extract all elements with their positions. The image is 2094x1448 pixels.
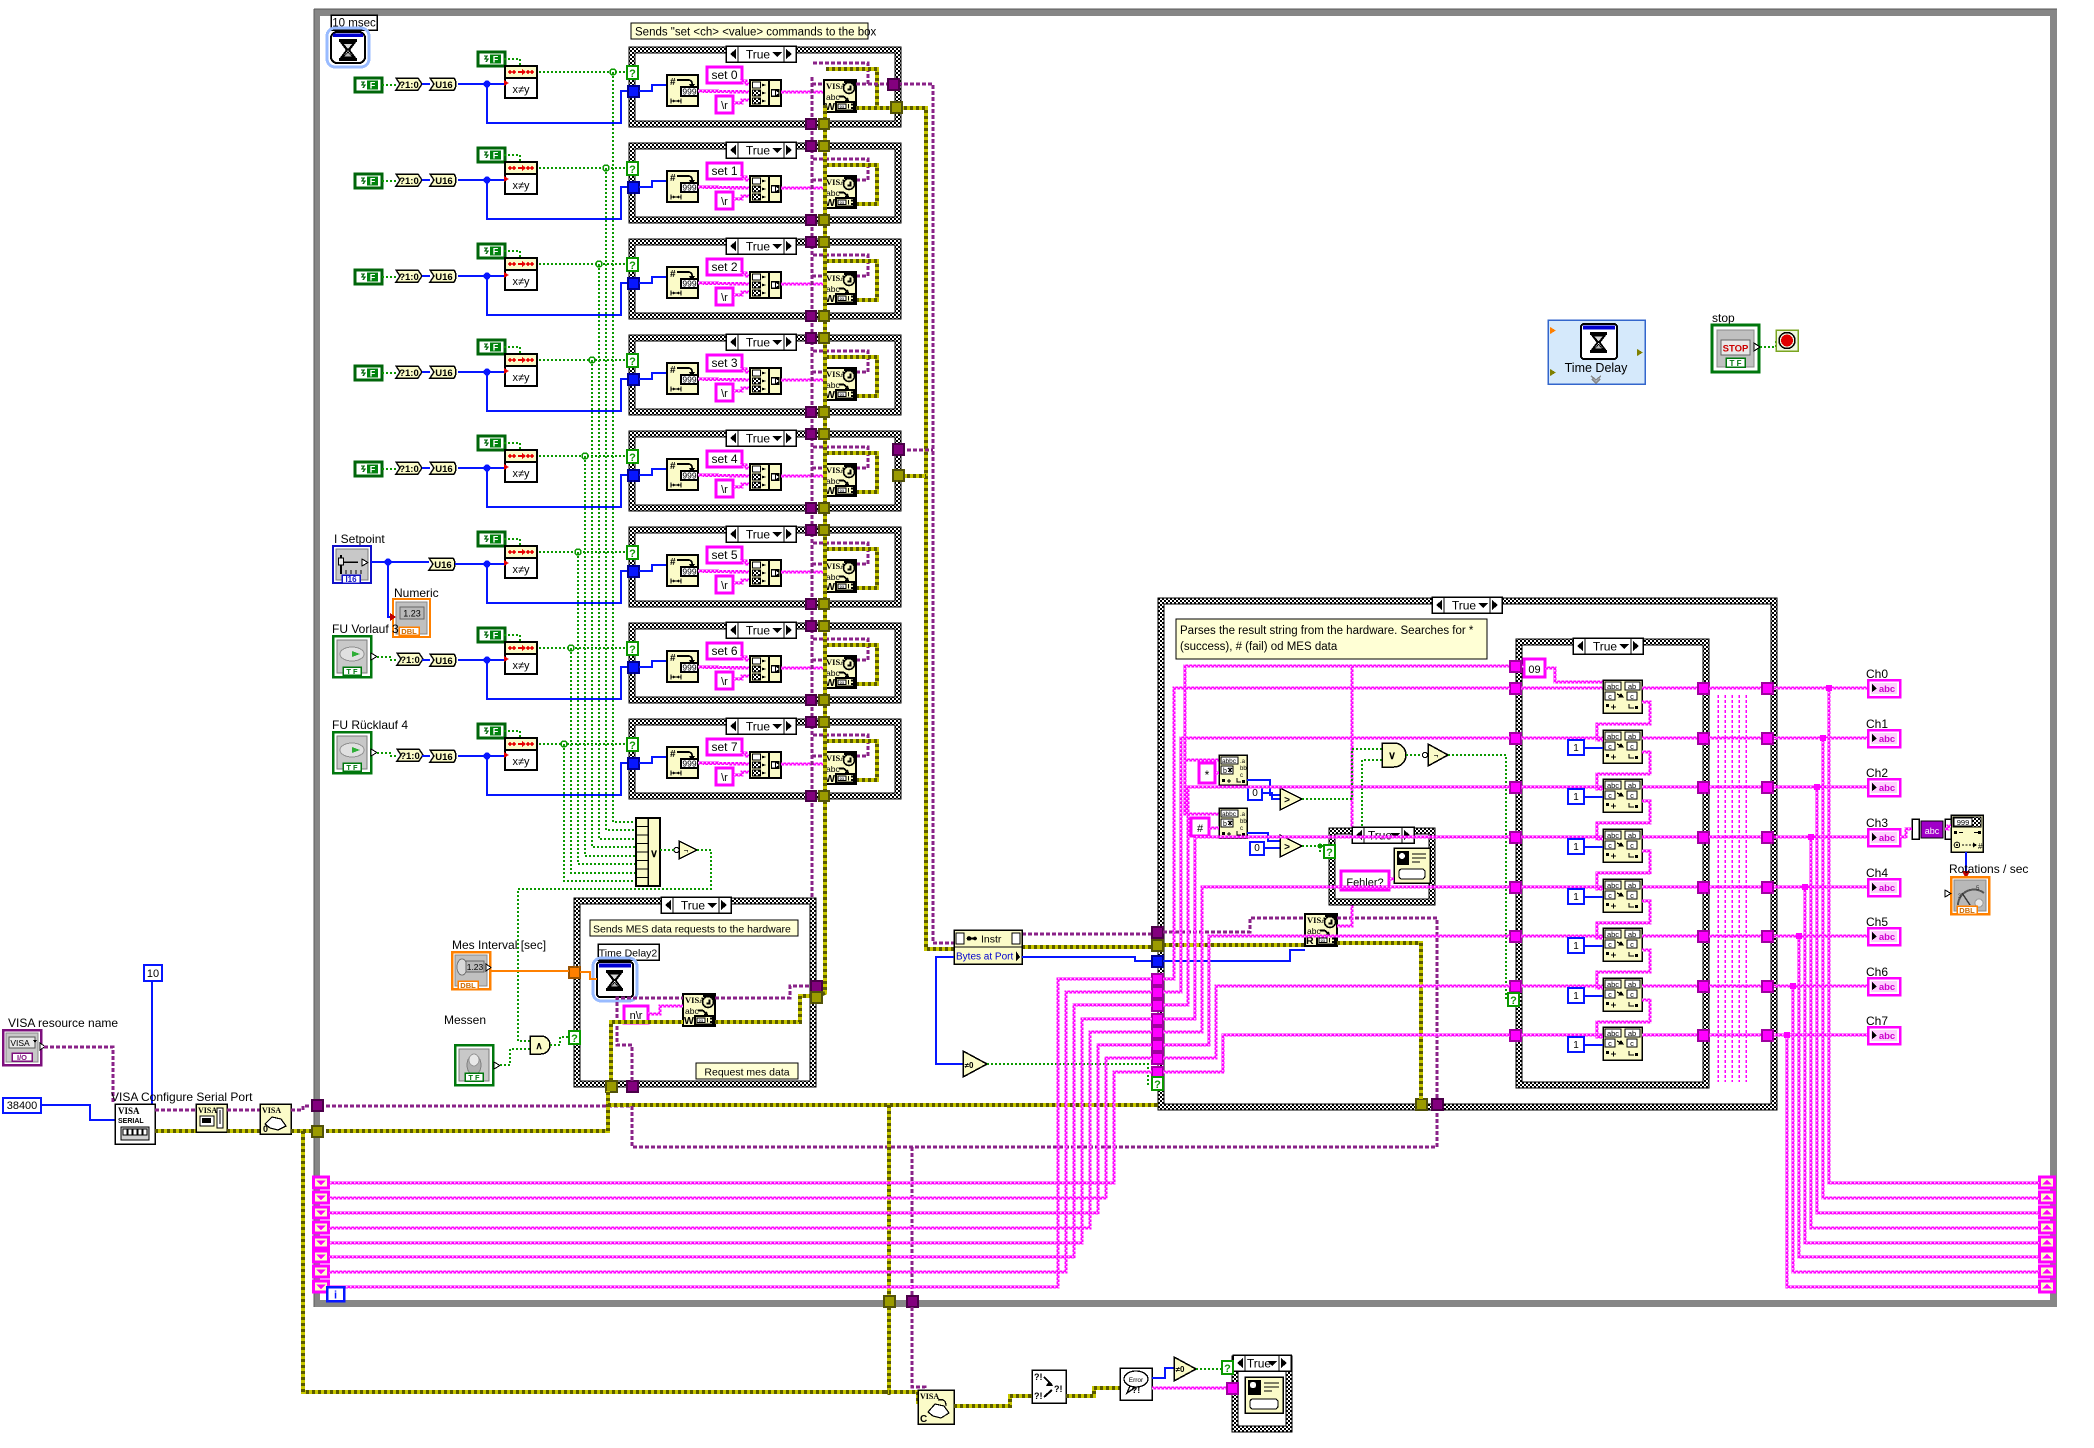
wire green selector row 1 [539,167,628,169]
svg-text:True: True [746,720,771,734]
select ?1:0 node row 0 [382,84,396,86]
svg-text:c: c [1630,692,1634,701]
while loop border [314,9,2057,16]
svg-text:?: ? [629,740,636,752]
not equal zero bottom [1174,1357,1196,1381]
svg-text:?: ? [629,452,636,464]
svg-text:\r: \r [721,388,728,400]
VISA write icon case 0 [824,80,856,112]
wire blue dsn to gauge [1965,852,1967,877]
olive tunnel bottom case 2 [819,311,829,321]
wire purple visa read out [1337,918,1437,1099]
svg-text:∧: ∧ [535,1041,542,1052]
select ?1:0 node row 6 [397,653,423,665]
number to string icon case 6 [667,651,698,682]
svg-text:STOP: STOP [1723,344,1749,355]
wire olive loop to MES [326,1091,608,1131]
wire olive below cases to big case [608,1103,1416,1107]
wire olive serial to property [155,1129,196,1133]
svg-text:999: 999 [1957,818,1970,827]
selector terminal case 0 [627,66,638,79]
svg-text:c: c [1608,990,1612,999]
magenta tunnel inner right 0 [1698,683,1709,694]
olive tunnel bottom case 4 [819,503,829,513]
wire hash to match [1209,827,1219,829]
svg-text:≠0: ≠0 [965,1061,974,1070]
visa elbow case 2 [812,275,824,278]
string constant set 4 [707,451,742,467]
wire blue into case 2 [487,276,629,315]
case structure error dialog [1232,1356,1292,1432]
wire magenta fan 2 [1163,787,1510,1005]
svg-text:abbc: abbc [1222,758,1237,765]
wire pink set label case 0 [740,81,750,84]
svg-text:x≠y: x≠y [512,276,530,288]
visa elbow case 1 [812,179,824,182]
shift register left 6 [314,1266,329,1277]
wire magenta SR line left 2 [329,1045,1152,1213]
wire pink backslash-r case 0 [733,100,750,103]
wire magenta inner input 5 [1521,935,1603,937]
olive tunnel bottom case 1 [819,215,829,225]
purple junction drop to loop bottom [911,1147,914,1297]
VISA wire hook case 1 [813,159,868,180]
wire magenta chain 5 [1597,901,1650,938]
VISA wire hook case 7 [813,735,868,756]
shift register right 0 [2040,1177,2055,1188]
svg-text:abc: abc [1879,734,1895,745]
scan from string icon 2 [1603,779,1642,812]
magenta tunnel big right 7 [1762,1030,1773,1041]
VISA wire hook case 5 [813,543,868,564]
wire magenta chain 2 [1597,752,1650,789]
svg-text:c: c [1630,891,1634,900]
selector terminal case 2 [627,258,638,271]
constant 1 inner 6 [1568,988,1584,1003]
purple tunnel bottom case 4 [806,503,816,513]
svg-text:Bytes at Port: Bytes at Port [956,952,1013,963]
wire magenta inner input 7 [1521,1034,1603,1036]
svg-text:ab: ab [1628,881,1636,890]
purple tunnel bottom case 2 [806,311,816,321]
svg-text:abc: abc [1925,826,1940,836]
loop condition terminal [1776,330,1798,351]
string constant hash [1191,818,1209,836]
magenta tunnel left 5 [1152,1040,1163,1051]
wire green selector row 3 [539,359,628,361]
visa elbow case 6 [812,659,824,662]
svg-text:\r: \r [721,772,728,784]
U16 conversion row 0 [422,83,430,85]
wire olive visa read out [1337,943,1421,1099]
svg-text:abc: abc [1607,831,1619,840]
wire magenta scan out 6 [1642,985,1704,987]
olive wire MES out right [715,996,811,1022]
wire green selector row 0 [539,71,628,73]
olive tunnel top case 3 [819,333,829,343]
svg-text:U16: U16 [434,560,451,571]
wire purple loop to MES [326,1105,632,1108]
magenta tunnel big right 1 [1762,733,1773,744]
svg-text:abc: abc [1607,930,1619,939]
svg-text:≠0: ≠0 [1176,1365,1185,1374]
olive wire inside MES [611,1022,683,1081]
VISA write icon case 7 [824,752,856,784]
wire pink backslash-r case 3 [733,388,750,391]
wire pink num out case 1 [698,187,750,188]
scan from string icon 1 [1603,730,1642,763]
wire green stop to condition [1760,341,1776,347]
svg-text:bb: bb [1240,819,1247,825]
wire blue inside case 7 [639,757,667,763]
svg-text:F: F [493,727,499,737]
wire magenta gap 3 [1709,836,1763,838]
wire star to match [1215,772,1219,774]
wire U16 to x-neq-y row 3 [458,371,505,373]
concatenate strings icon case 5 [750,560,769,586]
svg-text:T F: T F [1730,359,1742,368]
wire magenta inner input 1 [1521,737,1603,739]
shift register right 3 [2040,1222,2055,1233]
constant 1 inner 1 [1568,740,1584,755]
wire magenta SR line left 5 [329,1005,1152,1257]
shift register left 0 [314,1177,329,1188]
magenta tunnel inner left 6 [1510,981,1521,992]
visa elbow case 0 [812,83,824,86]
wire pink set label case 2 [740,273,750,276]
visa elbow case 7 [812,755,824,758]
string constant 09 [1524,659,1545,677]
wire magenta scan out 4 [1642,886,1704,888]
select ?1:0 node row 7 [397,749,423,761]
olive junction drop to loop bottom [887,1105,891,1297]
svg-text:#: # [670,557,676,568]
olive tunnel bottom case 5 [819,599,829,609]
svg-text:True: True [746,336,771,350]
svg-text:Sends MES data requests to the: Sends MES data requests to the hardware [593,924,791,936]
wire magenta gap 1 [1709,737,1763,739]
svg-text:\r: \r [721,100,728,112]
wire magenta fan 3 [1163,837,1510,1019]
svg-text:abc: abc [1607,732,1619,741]
concatenate strings icon case 3 [750,368,769,394]
svg-text:set 4: set 4 [711,452,737,466]
svg-text:VISA: VISA [10,1038,30,1048]
wire blue inside case 0 [639,85,667,91]
wire green bundle row 6 [571,648,636,873]
match pattern star icon [1219,755,1247,785]
svg-text:set 7: set 7 [711,740,737,754]
svg-text:?: ? [629,356,636,368]
svg-text:x≠y: x≠y [512,468,530,480]
svg-text:999: 999 [682,375,696,385]
select ?1:0 node row 1 [382,180,396,182]
string constant n-r [624,1006,648,1023]
magenta tunnel inner right 7 [1698,1030,1709,1041]
purple tunnel bottom case 6 [806,695,816,705]
VISA close icon [918,1390,954,1424]
shift register left 3 [314,1222,329,1233]
concatenate strings icon case 6 [750,656,769,682]
svg-text:U16: U16 [435,272,452,283]
svg-text:c: c [1630,791,1634,800]
number to string icon case 2 [667,267,698,298]
magenta tunnel inner left 3 [1510,832,1521,843]
purple tunnel bottom case 7 [806,791,816,801]
svg-text:True: True [746,48,771,62]
VISA write icon case 4 [824,464,856,496]
wire green neq to big case selector [987,1064,1153,1084]
number to string icon case 4 [667,459,698,490]
svg-text:Rotations / sec: Rotations / sec [1949,862,2028,876]
decimal string to number icon [1951,815,1983,852]
svg-text:ab: ab [1628,682,1636,691]
case structure set 5 [629,527,901,607]
svg-text:?: ? [1224,1363,1231,1375]
svg-text:.a: .a [1240,812,1246,818]
constant 38400 [3,1098,41,1113]
svg-text:ab: ab [1628,781,1636,790]
select ?1:0 node row 4 [382,468,396,470]
wire magenta SR line left 7 [329,979,1152,1287]
wire green Messen to AND [500,1049,530,1065]
VISA wire hook case 4 [813,447,868,468]
wire blue into case 1 [487,180,629,219]
wire I Setpoint to U16 [371,561,429,563]
wire magenta to Ch1 terminal [1774,737,1868,739]
svg-text:U16: U16 [435,368,452,379]
svg-text:1: 1 [1573,792,1579,803]
svg-text:True: True [1368,829,1393,843]
string constant backslash-r case 4 [716,480,733,497]
wire blue inside case 4 [639,469,667,475]
wire blue error to neq [1152,1368,1174,1378]
boolean false constant row 4 [355,462,382,476]
svg-text:abc: abc [1879,932,1895,943]
wire magenta chain 3 [1597,801,1650,839]
shift register right 1 [2040,1192,2055,1203]
magenta tunnel inner right 5 [1698,931,1709,942]
wire pink n-r to visa [648,1006,683,1014]
case structure set 3 [629,335,901,415]
svg-text:FU Rücklauf 4: FU Rücklauf 4 [332,718,408,732]
svg-text:?!: ?! [1034,1391,1043,1401]
scan from string icon 0 [1603,680,1642,713]
svg-text:ab: ab [1628,732,1636,741]
NOT gate after OR [679,841,697,859]
wire pink backslash-r case 5 [733,580,750,583]
svg-text:c: c [1630,990,1634,999]
wire pink num out case 2 [698,283,750,284]
VISA write icon case 5 [824,560,856,592]
decorative verticals between cases [1717,695,1719,1082]
trim whitespace icon [1912,819,1919,839]
express VI Time Delay [1548,320,1645,384]
wire magenta SR line left 1 [329,1058,1152,1198]
blue tunnel case 4 [628,470,639,481]
wire olive to visa read [1163,943,1305,947]
purple tunnel big case bottom [1432,1099,1443,1110]
VISA write icon case 2 [824,272,856,304]
magenta tunnel big right 4 [1762,882,1773,893]
wire magenta to Ch6 terminal [1774,985,1868,987]
wire magenta SR line left 0 [329,1072,1152,1183]
wire green bundle row 7 [564,744,636,881]
wire pink num out case 3 [698,379,750,380]
svg-text:0: 0 [1254,843,1260,854]
wire blue bytes branch down [936,957,963,1064]
string constant backslash-r case 2 [716,288,733,305]
wire green selector row 6 [539,647,628,649]
svg-text:999: 999 [682,471,696,481]
svg-text:set 1: set 1 [711,164,737,178]
VISA stub case4 [901,449,933,452]
svg-text:VISA: VISA [118,1106,140,1116]
svg-text:abc: abc [1607,682,1619,691]
svg-text:F: F [370,81,376,91]
wire purple serial to property [155,1109,196,1112]
boolean false constant row 2 [355,270,382,284]
wire pink set label case 3 [740,369,750,372]
svg-text:W: W [684,1015,694,1027]
wire TF to select row 6 [377,657,397,660]
wire 38400 to serial config [40,1105,115,1120]
svg-text:?1:0: ?1:0 [400,751,420,762]
olive tunnel big case bottom [1416,1099,1427,1110]
U16 conversion row 2 [422,275,430,277]
svg-text:?1:0: ?1:0 [399,272,419,283]
olive tunnel top case 7 [819,717,829,727]
selector terminal dialog case [1222,1361,1233,1374]
olive tunnel top case 6 [819,621,829,631]
svg-text:U16: U16 [435,752,452,763]
wire magenta inner input 2 [1521,786,1603,788]
error wire hook case 4 [826,453,877,492]
svg-text:∨: ∨ [650,848,658,860]
comment parses the result string [1176,619,1487,659]
compound OR block [636,818,660,886]
blue tunnel case 0 [628,86,639,97]
wire blue into case 3 [487,372,629,411]
wire magenta gap 4 [1709,886,1763,888]
blue tunnel case 5 [628,566,639,577]
svg-text:c: c [1608,940,1612,949]
shift register left 7 [314,1281,329,1292]
wire pink backslash-r case 1 [733,196,750,199]
wire pink backslash-r case 2 [733,292,750,295]
wire magenta inner input 4 [1521,886,1603,888]
VISA property node icon [196,1104,227,1132]
magenta tunnel inner right 6 [1698,981,1709,992]
svg-text:c: c [1630,841,1634,850]
one button dialog icon fehler [1394,848,1430,883]
svg-text:∨: ∨ [1388,750,1396,762]
wire magenta fan 1 [1163,738,1510,992]
wire magenta scan out 5 [1642,935,1704,937]
svg-text:x≠y: x≠y [512,756,530,768]
svg-text:VISA: VISA [262,1106,281,1115]
svg-text:#: # [670,77,676,88]
wire magenta chain 4 [1597,851,1650,889]
number to string icon case 0 [667,75,698,106]
boolean false constant row 3 [355,366,382,380]
case structure set 0 [629,47,901,127]
wire green selector row 7 [539,743,628,745]
VISA write icon case 3 [824,368,856,400]
wire green bundle row 2 [599,264,636,839]
svg-text:c: c [1630,1039,1634,1048]
boolean constant above x-neq-y row 4 [478,436,505,450]
svg-text:?!: ?! [1054,1384,1063,1394]
svg-text:F: F [370,177,376,187]
svg-text:set 0: set 0 [711,68,737,82]
svg-text:True: True [1452,599,1477,613]
shift register left 1 [314,1192,329,1203]
svg-text:?: ? [629,260,636,272]
svg-text:True: True [746,240,771,254]
wire green bundle row 5 [578,552,636,864]
wire magenta fan 7 [1163,1035,1510,1072]
wire green bundle row 4 [585,456,636,856]
svg-text:True: True [1593,640,1618,654]
shift register right 4 [2040,1237,2055,1248]
wire match a to greater [1247,780,1280,795]
svg-text:∞: ∞ [840,487,845,494]
tunnels on big case left edge [1152,927,1163,938]
svg-text:abc: abc [1879,883,1895,894]
svg-text:c: c [1608,841,1612,850]
wire pink backslash-r case 7 [733,772,750,775]
svg-text:set 5: set 5 [711,548,737,562]
case structure set 7 [629,719,901,799]
svg-text:ab: ab [1628,831,1636,840]
svg-text:set 6: set 6 [711,644,737,658]
orange tunnel MES case [569,967,580,978]
string constant set 2 [707,259,742,275]
wire purple bottom to visa close [912,1307,925,1392]
scan from string icon 5 [1603,928,1642,961]
wire pink num out case 5 [698,571,750,572]
concatenate strings icon case 0 [750,80,769,106]
svg-text:#: # [670,173,676,184]
purple wire inside MES [617,998,683,1081]
olive tunnel bottom case 3 [819,407,829,417]
olive tunnel top case 2 [819,237,829,247]
olive tunnel bottom case 6 [819,695,829,705]
purple wire MES out right [715,986,811,998]
svg-text:Instr: Instr [981,934,1002,946]
constant 1 inner 7 [1568,1037,1584,1052]
olive tunnel top case 5 [819,525,829,535]
wire blue into case 7 [487,756,629,795]
svg-text:I Setpoint: I Setpoint [334,532,385,546]
svg-text:?!: ?! [1034,1372,1043,1382]
svg-text:\r: \r [721,676,728,688]
x not equal y node row 4 [505,450,537,462]
svg-text:Request mes data: Request mes data [704,1067,789,1079]
wire OR to NOT [660,849,674,851]
svg-text:#: # [670,269,676,280]
boolean constant above x-neq-y row 3 [478,340,505,354]
svg-text:.a: .a [1240,759,1246,765]
merge errors icon [1032,1370,1066,1403]
wire pink backslash-r case 6 [733,676,750,679]
wire blue into case 5 [487,564,629,603]
svg-text:F: F [493,151,499,161]
wire olive property to open [227,1129,260,1133]
visa elbow case 3 [812,371,824,374]
svg-text:1: 1 [1573,941,1579,952]
